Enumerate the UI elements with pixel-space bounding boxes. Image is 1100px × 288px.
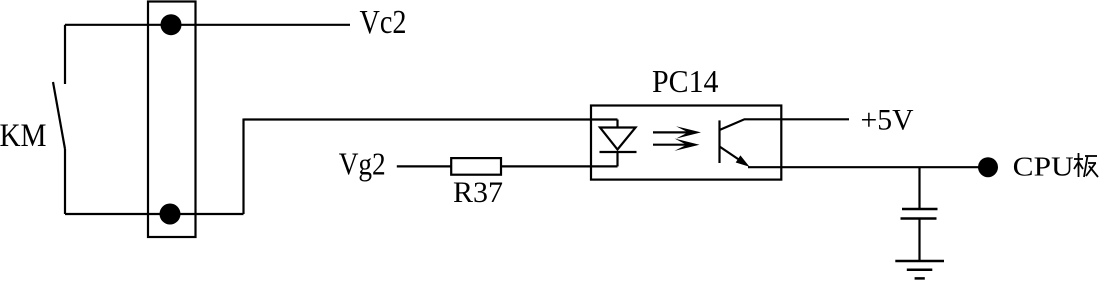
node top terminal: [161, 14, 182, 35]
switch KM upper contact: [64, 25, 66, 84]
switch KM blade: [53, 82, 65, 149]
capacitor C bottom plate: [901, 217, 937, 220]
capacitor C top plate: [902, 208, 938, 211]
wire +5V: [781, 118, 849, 120]
svg-text:Vc2: Vc2: [360, 4, 407, 41]
switch KM lower lead: [64, 149, 66, 214]
LED anode lead: [616, 120, 618, 128]
svg-text:R37: R37: [453, 176, 503, 209]
wire top (terminal to Vc2): [65, 24, 350, 26]
light arrow upper: [653, 126, 701, 138]
wire capacitor to ground: [918, 219, 920, 262]
wire resistor to optocoupler LED cathode: [501, 165, 618, 167]
label CJK character ban (board): [1074, 153, 1098, 177]
wire capacitor branch: [918, 167, 920, 209]
node bottom terminal: [160, 204, 181, 225]
wire main horizontal to optocoupler: [244, 118, 618, 120]
svg-text:KM: KM: [0, 118, 47, 154]
svg-text:CPU: CPU: [1013, 152, 1074, 182]
svg-text:PC14: PC14: [652, 63, 719, 99]
light arrow lower: [653, 139, 700, 151]
optocoupler PC14 body: [591, 106, 781, 180]
resistor R37: [451, 158, 501, 175]
wire right vertical riser: [242, 119, 244, 215]
phototransistor emitter with arrow: [720, 147, 750, 167]
LED cathode lead: [616, 152, 618, 166]
svg-text:+5V: +5V: [861, 105, 914, 137]
wire emitter to CPU node: [781, 166, 988, 168]
wire emitter inside box: [748, 166, 781, 168]
terminal block: [148, 2, 196, 238]
LED triangle: [600, 128, 636, 150]
ground: [895, 261, 944, 278]
node CPU board: [978, 157, 998, 177]
wire bottom (switch to corner): [65, 213, 244, 215]
wire Vg2 to resistor: [397, 165, 451, 167]
svg-text:Vg2: Vg2: [339, 146, 386, 182]
phototransistor base: [718, 120, 720, 163]
phototransistor collector: [720, 119, 782, 130]
LED cathode bar: [600, 151, 637, 153]
